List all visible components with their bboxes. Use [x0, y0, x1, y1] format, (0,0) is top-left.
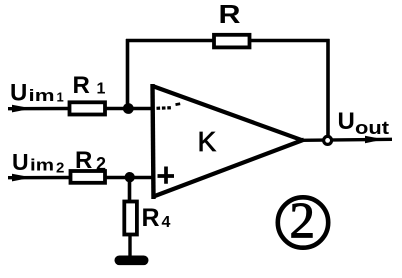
svg-text:out: out: [355, 118, 389, 138]
svg-text:1: 1: [57, 90, 64, 105]
op-amp U1 bottom edge: [154, 140, 305, 197]
resistor R: [214, 35, 250, 48]
resistor R2: [71, 171, 106, 183]
svg-text:R: R: [75, 147, 92, 174]
wire R4 to ground: [128, 234, 131, 257]
wire R2 to op-amp: [104, 176, 152, 179]
svg-text:4: 4: [162, 214, 171, 231]
svg-text:1: 1: [97, 81, 106, 98]
svg-text:K: K: [198, 126, 217, 157]
svg-text:2: 2: [290, 194, 316, 250]
ground: [115, 256, 149, 266]
input arrow on Uim1 wire: [12, 105, 32, 113]
svg-text:U: U: [12, 149, 29, 175]
plus sign at non-inverting input: [158, 167, 175, 184]
svg-text:R: R: [142, 204, 160, 232]
wire R1 to op-amp: [105, 107, 152, 110]
resistor R4: [124, 202, 137, 235]
dashed inverting input continuation: [157, 106, 173, 110]
svg-text:im: im: [30, 155, 54, 174]
resistor R1: [70, 102, 106, 114]
svg-text:im: im: [29, 86, 55, 105]
svg-text:R: R: [219, 0, 241, 29]
wire op-amp output: [301, 139, 392, 140]
wire input 1 left segment: [8, 107, 70, 111]
output arrow: [365, 136, 384, 143]
node junction 1 (inverting input): [123, 103, 134, 114]
figure number circle: [278, 197, 328, 247]
wire feedback right vertical: [326, 39, 330, 139]
node junction 2 (non-inverting input): [125, 172, 135, 182]
svg-text:U: U: [10, 80, 27, 107]
node output (open circle): [324, 136, 332, 144]
op-amp U1 top edge: [153, 86, 303, 140]
wire feedback top right: [248, 39, 330, 43]
wire input 2 left segment: [8, 176, 72, 180]
wire feedback top left: [126, 39, 216, 43]
svg-text:U: U: [338, 108, 355, 135]
small minus tick: [176, 102, 181, 106]
svg-text:2: 2: [56, 160, 64, 177]
wire junction2 down to R4: [128, 177, 132, 202]
svg-text:R: R: [73, 72, 90, 99]
op-amp U1 left edge: [153, 84, 154, 199]
wire vertical junction1 to feedback: [126, 39, 130, 109]
svg-text:2: 2: [96, 154, 106, 174]
input arrow on Uim2 wire: [12, 174, 32, 182]
